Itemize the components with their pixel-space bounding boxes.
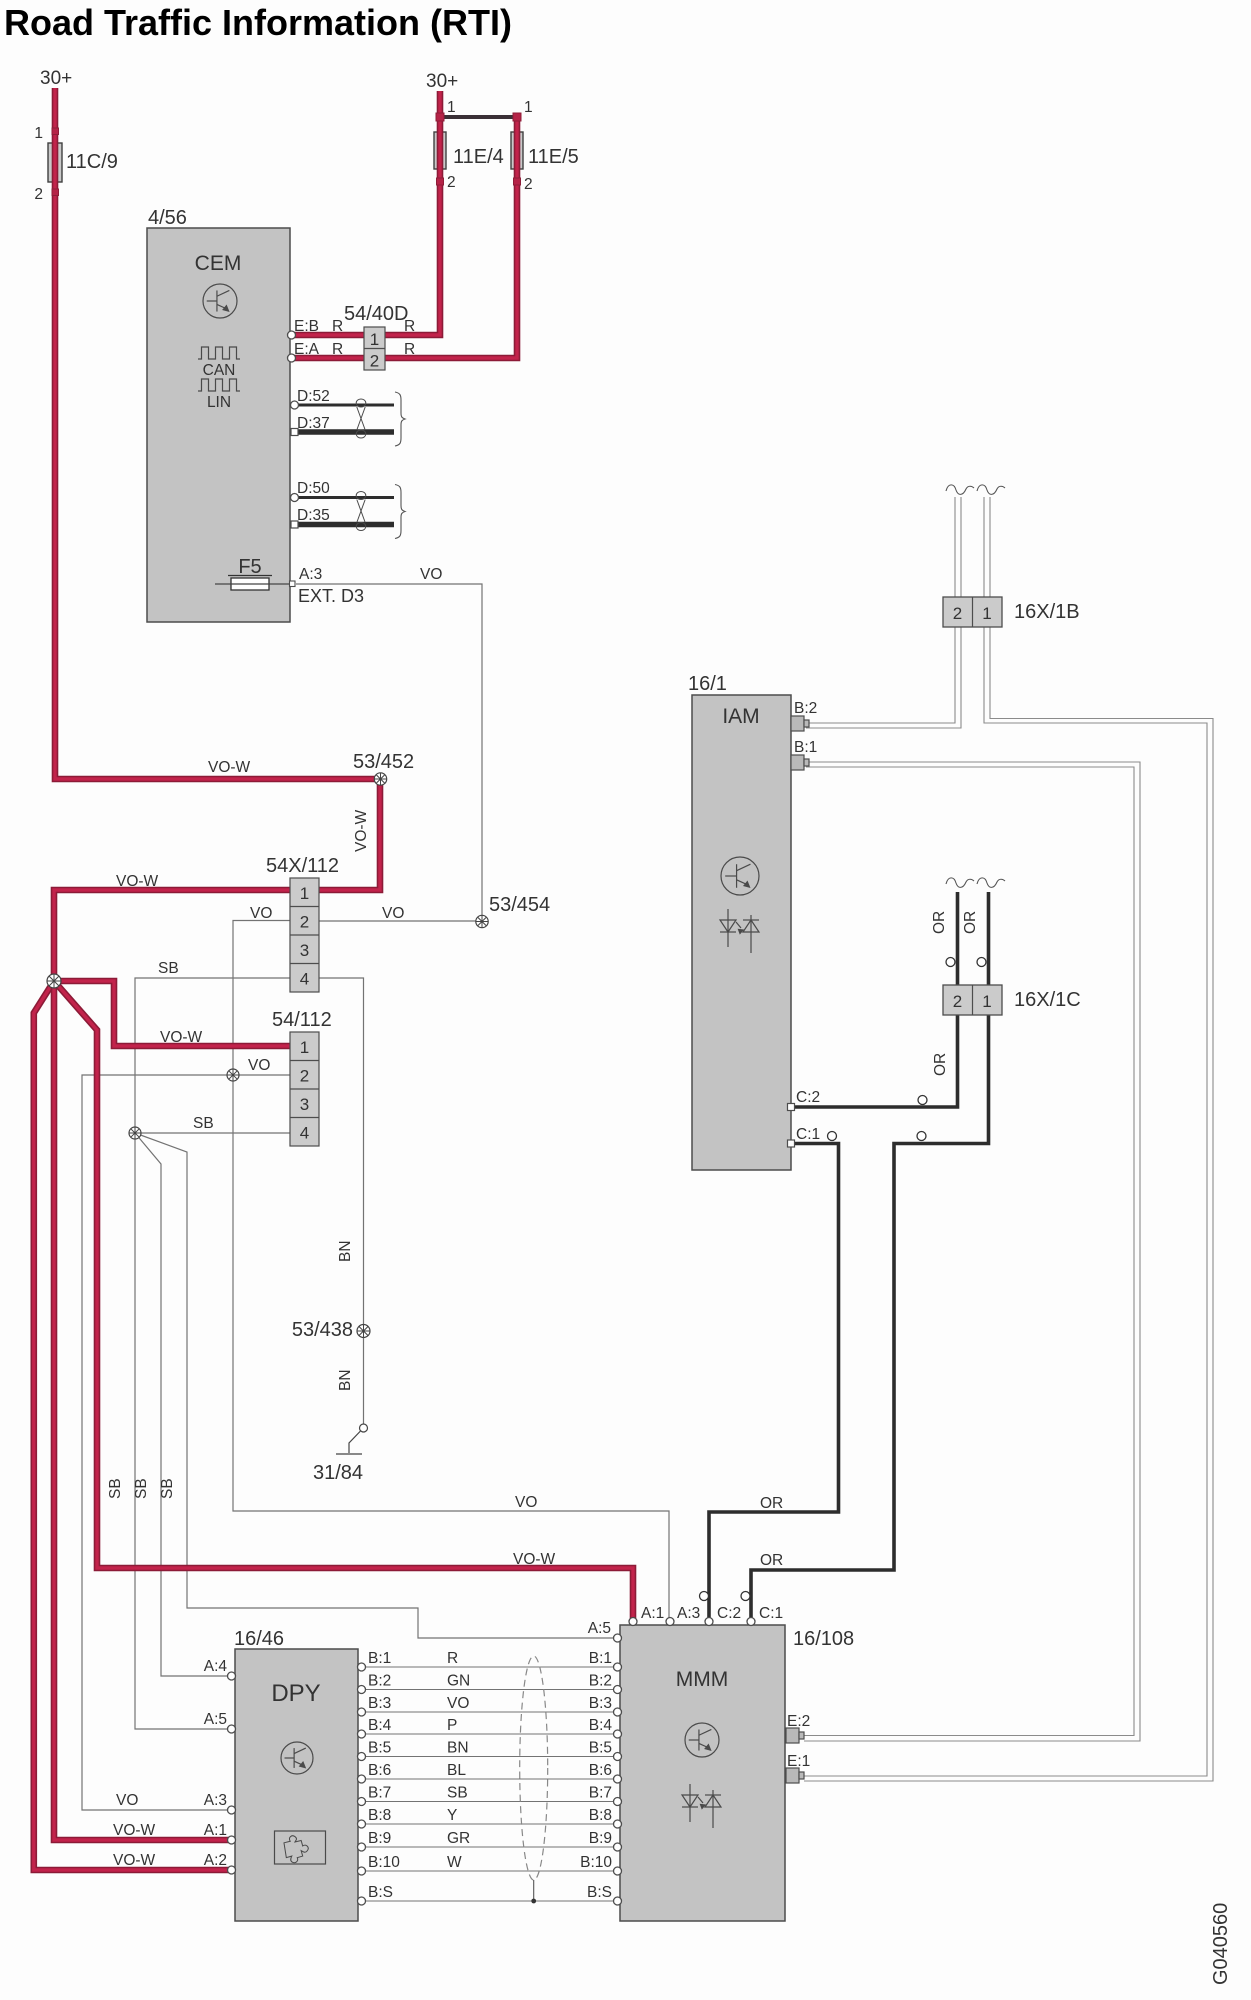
svg-text:4: 4 bbox=[300, 1124, 309, 1143]
fuse body 11C/9 bbox=[48, 143, 62, 182]
svg-text:CAN: CAN bbox=[203, 362, 236, 379]
svg-text:VO-W: VO-W bbox=[208, 759, 251, 776]
svg-text:B:8: B:8 bbox=[368, 1807, 391, 1824]
svg-text:B:4: B:4 bbox=[368, 1717, 392, 1734]
svg-text:D:35: D:35 bbox=[297, 507, 330, 524]
svg-text:B:3: B:3 bbox=[589, 1695, 612, 1712]
wire VO branch to 54/112 pin2 and DPY A:3 bbox=[82, 1075, 290, 1810]
svg-text:31/84: 31/84 bbox=[313, 1462, 363, 1484]
svg-text:VO: VO bbox=[116, 1792, 138, 1809]
svg-text:1: 1 bbox=[982, 604, 991, 623]
splice 53/452 bbox=[374, 773, 386, 785]
inline pin on IAM C:2 wire bbox=[918, 1096, 927, 1105]
svg-text:VO: VO bbox=[420, 566, 442, 583]
svg-text:P: P bbox=[447, 1717, 457, 1734]
svg-text:1: 1 bbox=[370, 330, 379, 349]
svg-text:A:5: A:5 bbox=[204, 1711, 227, 1728]
svg-text:A:4: A:4 bbox=[204, 1658, 228, 1675]
svg-text:3: 3 bbox=[300, 941, 309, 960]
pin DPY A:4 bbox=[228, 1672, 236, 1680]
control module CEM box 4/56 bbox=[147, 228, 290, 622]
splice 53/454 bbox=[476, 915, 488, 927]
svg-text:R: R bbox=[447, 1650, 458, 1667]
svg-text:D:50: D:50 bbox=[297, 480, 330, 497]
wire R 30+ through fuse 11E/4 to CEM E:B bbox=[291, 91, 440, 335]
wire OR 16X/1C pin1 to MMM C:1 bbox=[751, 892, 989, 1621]
pin CEM A:3 bbox=[290, 581, 296, 587]
svg-text:B:S: B:S bbox=[368, 1884, 393, 1901]
wire VO-W junction to 54/112 pin1 bbox=[54, 981, 319, 1046]
pin CEM E:B bbox=[288, 331, 296, 339]
twin wire IAM B:2 to 16X/1B pin2 bbox=[806, 497, 961, 728]
svg-text:A:2: A:2 bbox=[204, 1852, 227, 1869]
pin IAM B:1 bbox=[791, 755, 809, 770]
svg-text:F5: F5 bbox=[238, 556, 261, 578]
svg-text:2: 2 bbox=[34, 186, 43, 203]
IAM diode icon bbox=[720, 909, 759, 953]
svg-text:Road Traffic Information (RTI): Road Traffic Information (RTI) bbox=[4, 2, 512, 43]
inline pin on 16X/1C pin1 wire bbox=[917, 1132, 926, 1141]
svg-text:1: 1 bbox=[447, 99, 456, 116]
svg-text:1: 1 bbox=[300, 1038, 309, 1057]
wire D:35 from CEM bbox=[296, 522, 394, 528]
svg-text:OR: OR bbox=[760, 1552, 783, 1569]
svg-text:4: 4 bbox=[300, 970, 309, 989]
svg-text:VO: VO bbox=[447, 1695, 469, 1712]
svg-text:C:2: C:2 bbox=[717, 1605, 741, 1622]
svg-text:B:4: B:4 bbox=[589, 1717, 613, 1734]
pin CEM D:50 bbox=[291, 494, 299, 502]
svg-text:54/40D: 54/40D bbox=[344, 303, 409, 325]
wire D:37 from CEM bbox=[296, 429, 394, 435]
junction fuse 11E/4 pin1 bbox=[436, 113, 444, 121]
wire VO-W junction to DPY A:1 bbox=[54, 981, 232, 1840]
svg-text:B:3: B:3 bbox=[368, 1695, 391, 1712]
svg-text:B:6: B:6 bbox=[368, 1762, 391, 1779]
svg-text:54/112: 54/112 bbox=[272, 1009, 332, 1031]
pin MMM C:2 bbox=[705, 1618, 713, 1626]
pin MMM A:1 bbox=[629, 1618, 637, 1626]
wire OR IAM C:2 to 16X/1C pin2 bbox=[791, 892, 958, 1107]
svg-text:E:2: E:2 bbox=[787, 1713, 810, 1730]
svg-text:A:3: A:3 bbox=[204, 1792, 227, 1809]
pin MMM E:1 bbox=[786, 1768, 804, 1783]
svg-text:VO-W: VO-W bbox=[353, 809, 370, 852]
cable break brace D:50/D:35 bbox=[395, 485, 405, 539]
svg-text:D:37: D:37 bbox=[297, 415, 330, 432]
inline pin on MMM C:1 wire bbox=[741, 1592, 750, 1601]
svg-text:LIN: LIN bbox=[207, 394, 231, 411]
IAM control icon bbox=[721, 857, 759, 895]
CAN bus symbol bbox=[198, 347, 240, 359]
svg-text:B:5: B:5 bbox=[368, 1740, 391, 1757]
DPY control icon bbox=[281, 1742, 313, 1774]
cable break brace D:52/D:37 bbox=[395, 392, 405, 446]
CEM control icon bbox=[203, 284, 237, 318]
svg-text:54X/112: 54X/112 bbox=[266, 855, 339, 877]
pin 2 marker fuse 11E/5 bbox=[514, 178, 521, 185]
svg-text:16/46: 16/46 bbox=[234, 1628, 284, 1650]
svg-text:16X/1C: 16X/1C bbox=[1014, 989, 1081, 1011]
svg-text:53/438: 53/438 bbox=[292, 1319, 353, 1341]
svg-text:C:2: C:2 bbox=[796, 1089, 820, 1106]
pin CEM D:37 bbox=[291, 429, 298, 436]
svg-text:2: 2 bbox=[447, 174, 456, 191]
svg-text:53/452: 53/452 bbox=[353, 751, 414, 773]
wire D:52 from CEM bbox=[296, 404, 394, 407]
svg-text:2: 2 bbox=[300, 1067, 309, 1086]
svg-text:VO: VO bbox=[382, 905, 404, 922]
wire VO-W 53/452 through 54X/112 pin1 to junction splice bbox=[54, 779, 380, 981]
pin 1 marker fuse 11C/9 bbox=[52, 128, 59, 135]
twin wire IAM B:1 to MMM E:2 bbox=[804, 762, 1140, 1741]
svg-text:SB: SB bbox=[107, 1478, 124, 1499]
twisted pair symbol D:52/D:37 bbox=[356, 399, 366, 438]
svg-text:EXT. D3: EXT. D3 bbox=[298, 586, 364, 606]
pins DPY/MMM B:1-B:S with wire colour labels bbox=[358, 1663, 366, 1671]
svg-text:B:9: B:9 bbox=[368, 1830, 391, 1847]
svg-text:11E/4: 11E/4 bbox=[453, 146, 504, 168]
svg-text:VO-W: VO-W bbox=[113, 1852, 156, 1869]
svg-text:E:B: E:B bbox=[294, 318, 319, 335]
antenna break squiggles above 16X/1C bbox=[946, 878, 974, 888]
svg-text:1: 1 bbox=[300, 884, 309, 903]
svg-text:B:6: B:6 bbox=[589, 1762, 612, 1779]
fuse body 11E/4 bbox=[434, 132, 446, 169]
svg-text:CEM: CEM bbox=[195, 252, 242, 275]
svg-text:W: W bbox=[447, 1854, 462, 1871]
splice on SB at 54/112 pin4 bbox=[129, 1127, 141, 1139]
svg-text:A:3: A:3 bbox=[299, 566, 322, 583]
svg-text:G040560: G040560 bbox=[1210, 1903, 1232, 1985]
link between fuse 11E/4 and 11E/5 pin1 bbox=[440, 115, 517, 119]
svg-text:DPY: DPY bbox=[271, 1680, 320, 1707]
svg-text:16/1: 16/1 bbox=[688, 673, 727, 695]
svg-text:B:S: B:S bbox=[587, 1884, 612, 1901]
display module DPY box 16/46 bbox=[235, 1649, 358, 1921]
svg-text:2: 2 bbox=[300, 913, 309, 932]
svg-text:B:2: B:2 bbox=[589, 1673, 612, 1690]
pin MMM C:1 bbox=[747, 1618, 755, 1626]
pin IAM B:2 bbox=[791, 716, 809, 731]
pin IAM C:2 bbox=[788, 1104, 795, 1111]
pin 2 marker fuse 11E/4 bbox=[437, 178, 444, 185]
svg-text:R: R bbox=[332, 318, 343, 335]
svg-text:R: R bbox=[404, 318, 415, 335]
pin MMM E:2 bbox=[786, 1728, 804, 1743]
wire VO-W junction to MMM A:1 bbox=[54, 981, 633, 1623]
svg-text:BN: BN bbox=[337, 1369, 354, 1391]
wire R through fuse 11E/5 to CEM E:A bbox=[291, 117, 517, 358]
svg-text:SB: SB bbox=[159, 1478, 176, 1499]
svg-text:B:8: B:8 bbox=[589, 1807, 612, 1824]
multimedia module MMM box 16/108 bbox=[620, 1625, 785, 1921]
twin wire 16X/1B pin1 to MMM E:1 bbox=[804, 497, 1213, 1781]
svg-text:GR: GR bbox=[447, 1830, 470, 1847]
fuse F5 in CEM bbox=[231, 578, 269, 590]
splice 53/438 bbox=[357, 1325, 370, 1338]
svg-text:B:10: B:10 bbox=[580, 1854, 612, 1871]
svg-text:B:5: B:5 bbox=[589, 1740, 612, 1757]
svg-text:B:7: B:7 bbox=[368, 1785, 391, 1802]
svg-text:OR: OR bbox=[962, 911, 979, 934]
svg-text:SB: SB bbox=[193, 1115, 214, 1132]
svg-text:C:1: C:1 bbox=[796, 1126, 820, 1143]
svg-text:VO: VO bbox=[515, 1494, 537, 1511]
wire BN 54X/112 pin4 to ground switch 31/84 bbox=[319, 978, 364, 1424]
svg-text:VO-W: VO-W bbox=[160, 1029, 203, 1046]
wire VO-W junction to DPY A:2 bbox=[34, 981, 232, 1870]
svg-text:B:1: B:1 bbox=[794, 739, 817, 756]
inline pins above 16X/1C bbox=[946, 958, 955, 967]
svg-text:1: 1 bbox=[982, 992, 991, 1011]
svg-text:A:1: A:1 bbox=[641, 1605, 664, 1622]
wire VO 54X/112 pin2 down to MMM A:3 bbox=[233, 921, 669, 1624]
svg-text:A:3: A:3 bbox=[677, 1605, 700, 1622]
pin CEM E:A bbox=[288, 354, 296, 362]
svg-text:A:1: A:1 bbox=[204, 1822, 227, 1839]
svg-text:1: 1 bbox=[34, 125, 43, 142]
connector 16X/1C bbox=[943, 985, 1002, 1015]
svg-text:11E/5: 11E/5 bbox=[528, 146, 579, 168]
wire D:50 from CEM bbox=[296, 496, 394, 499]
MMM control icon bbox=[685, 1723, 719, 1757]
splice on VO at 54/112 pin2 bbox=[227, 1069, 239, 1081]
svg-text:1: 1 bbox=[524, 99, 533, 116]
pin MMM A:5 bbox=[614, 1634, 622, 1642]
svg-text:OR: OR bbox=[932, 1053, 949, 1076]
svg-text:2: 2 bbox=[953, 992, 962, 1011]
svg-text:R: R bbox=[332, 341, 343, 358]
svg-text:BN: BN bbox=[337, 1240, 354, 1262]
svg-text:A:5: A:5 bbox=[588, 1620, 611, 1637]
wire 30+ through fuse 11C/9 to splice 53/452 bbox=[55, 88, 380, 779]
wire OR IAM C:1 to MMM C:2 bbox=[709, 1144, 839, 1622]
svg-text:BL: BL bbox=[447, 1762, 466, 1779]
svg-text:MMM: MMM bbox=[676, 1668, 728, 1691]
pin DPY A:1 bbox=[228, 1836, 236, 1844]
svg-text:B:7: B:7 bbox=[589, 1785, 612, 1802]
module IAM box 16/1 bbox=[692, 695, 791, 1170]
svg-text:Y: Y bbox=[447, 1807, 457, 1824]
svg-text:IAM: IAM bbox=[722, 705, 759, 728]
svg-text:E:A: E:A bbox=[294, 341, 320, 358]
svg-text:VO-W: VO-W bbox=[113, 1822, 156, 1839]
svg-text:B:10: B:10 bbox=[368, 1854, 400, 1871]
svg-text:11C/9: 11C/9 bbox=[66, 151, 118, 173]
pin IAM C:1 bbox=[788, 1140, 795, 1147]
LIN bus symbol bbox=[198, 379, 240, 391]
pin CEM D:35 bbox=[291, 521, 298, 528]
shield drain to B:S bbox=[533, 1880, 535, 1901]
svg-text:SB: SB bbox=[133, 1478, 150, 1499]
junction fuse 11E/5 pin1 bbox=[513, 113, 521, 121]
svg-text:BN: BN bbox=[447, 1740, 469, 1757]
svg-text:E:1: E:1 bbox=[787, 1753, 810, 1770]
DPY media icon bbox=[275, 1831, 326, 1864]
svg-text:VO-W: VO-W bbox=[116, 873, 159, 890]
svg-text:VO-W: VO-W bbox=[513, 1551, 556, 1568]
svg-text:53/454: 53/454 bbox=[489, 894, 550, 916]
svg-text:B:9: B:9 bbox=[589, 1830, 612, 1847]
pin MMM A:3 bbox=[666, 1618, 674, 1626]
wire SB splice to 54/112 pin4 bbox=[135, 1132, 290, 1134]
svg-text:C:1: C:1 bbox=[759, 1605, 783, 1622]
svg-text:30+: 30+ bbox=[426, 71, 458, 92]
svg-text:SB: SB bbox=[447, 1785, 468, 1802]
shield ellipse bbox=[520, 1656, 548, 1880]
pin 2 marker fuse 11C/9 bbox=[52, 189, 59, 196]
pin CEM D:52 bbox=[291, 401, 299, 409]
antenna break squiggles above 16X/1B bbox=[946, 485, 974, 495]
connector 16X/1B bbox=[943, 597, 1002, 627]
twisted pair symbol D:50/D:35 bbox=[356, 492, 366, 531]
svg-text:B:1: B:1 bbox=[589, 1650, 612, 1667]
svg-text:30+: 30+ bbox=[40, 68, 72, 89]
svg-text:VO: VO bbox=[248, 1057, 270, 1074]
wire SB 54X/112 pin4 to splice bbox=[135, 978, 290, 1729]
svg-text:16X/1B: 16X/1B bbox=[1014, 601, 1080, 623]
pin DPY A:3 bbox=[228, 1806, 236, 1814]
MMM diode icon bbox=[682, 1784, 721, 1828]
svg-text:OR: OR bbox=[760, 1495, 783, 1512]
svg-text:3: 3 bbox=[300, 1095, 309, 1114]
svg-text:SB: SB bbox=[158, 960, 179, 977]
wires DPY B:1-B:S to MMM B:1-B:S bbox=[362, 1667, 618, 1901]
inline pin on IAM C:1 wire bbox=[828, 1132, 837, 1141]
svg-text:2: 2 bbox=[524, 176, 533, 193]
pin DPY A:2 bbox=[228, 1866, 236, 1874]
pin DPY A:5 bbox=[228, 1725, 236, 1733]
svg-text:GN: GN bbox=[447, 1673, 470, 1690]
wire SB splice to DPY A:4 bbox=[135, 1133, 232, 1676]
svg-text:B:2: B:2 bbox=[368, 1673, 391, 1690]
svg-text:B:1: B:1 bbox=[368, 1650, 391, 1667]
svg-text:2: 2 bbox=[370, 352, 379, 371]
junction splice VO-W bbox=[47, 974, 61, 988]
wire VO CEM A:3 to splice 53/454 bbox=[296, 584, 482, 921]
svg-text:OR: OR bbox=[931, 911, 948, 934]
fuse body 11E/5 bbox=[511, 132, 523, 169]
svg-text:VO: VO bbox=[250, 905, 272, 922]
svg-text:R: R bbox=[404, 341, 415, 358]
wire VO 53/454 to 54X/112 pin2 bbox=[319, 920, 482, 922]
svg-text:D:52: D:52 bbox=[297, 388, 330, 405]
inline pin on MMM C:2 wire bbox=[700, 1592, 709, 1601]
svg-text:2: 2 bbox=[953, 604, 962, 623]
svg-text:B:2: B:2 bbox=[794, 700, 817, 717]
wire SB splice to MMM A:5 bbox=[135, 1133, 618, 1638]
ground switch 31/84 bbox=[360, 1424, 368, 1432]
svg-text:4/56: 4/56 bbox=[148, 207, 187, 229]
svg-text:16/108: 16/108 bbox=[793, 1628, 854, 1650]
